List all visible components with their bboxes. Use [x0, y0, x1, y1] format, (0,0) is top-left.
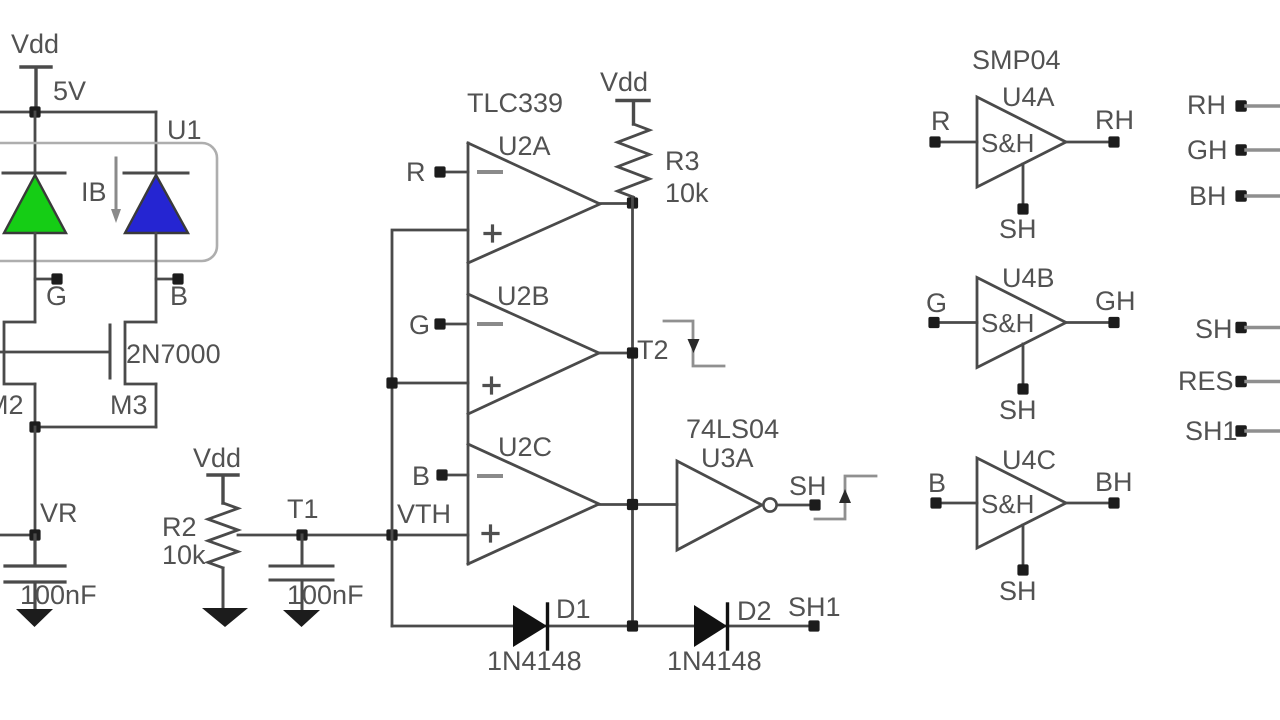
node B dot: [172, 273, 183, 284]
wire down to VR: [34, 427, 37, 535]
input R wire U4A: [940, 141, 977, 144]
wire blue LED to M3: [155, 233, 158, 322]
wire to blue LED: [155, 112, 158, 173]
node SH1 dot: [808, 620, 819, 631]
IC U1 outline: [0, 143, 217, 261]
svg-text:VR: VR: [40, 498, 78, 528]
bus wire left of comparators: [392, 230, 468, 626]
svg-text:G: G: [409, 310, 430, 340]
svg-text:S&H: S&H: [981, 308, 1034, 338]
svg-text:B: B: [928, 468, 946, 498]
node G tap wire: [35, 278, 52, 281]
svg-text:U3A: U3A: [701, 443, 754, 473]
svg-text:G: G: [46, 281, 67, 311]
wire R2 tap to VTH: [238, 534, 468, 537]
LED blue triangle: [125, 175, 188, 233]
svg-text:100nF: 100nF: [20, 580, 97, 610]
svg-text:S&H: S&H: [981, 128, 1034, 158]
wire green LED to M2: [34, 233, 37, 322]
svg-text:T2: T2: [637, 335, 669, 365]
wire top rail: [0, 111, 156, 114]
node B tap wire: [156, 278, 173, 281]
node U2C out junction: [627, 499, 638, 510]
svg-text:U1: U1: [167, 115, 202, 145]
wire sources join: [35, 426, 156, 429]
svg-text:R: R: [931, 106, 951, 136]
svg-text:B: B: [412, 461, 430, 491]
svg-text:74LS04: 74LS04: [686, 414, 779, 444]
comparators shared left edge: [467, 143, 470, 564]
node T1 dot: [296, 529, 307, 540]
resistor R2 bottom stub: [222, 568, 225, 608]
input G wire: [444, 323, 468, 326]
svg-text:SH: SH: [999, 214, 1037, 244]
capacitor C1 100nF plates: [5, 535, 65, 609]
transistor M2 body: [4, 322, 35, 384]
node junction sources: [29, 421, 40, 432]
svg-text:IB: IB: [81, 177, 107, 207]
svg-text:SH1: SH1: [788, 592, 841, 622]
ground under R2: [202, 608, 248, 627]
S&H amp U4A: [977, 97, 1066, 187]
comparator U2A: [468, 143, 600, 263]
svg-text:M3: M3: [110, 390, 148, 420]
power Vdd bar top-left: [21, 67, 51, 112]
svg-text:100nF: 100nF: [287, 580, 364, 610]
svg-text:U4C: U4C: [1002, 445, 1056, 475]
svg-text:G: G: [926, 288, 947, 318]
wire U2C output: [599, 503, 677, 506]
S&H amp U4C: [977, 458, 1066, 548]
ground under C1: [16, 609, 53, 627]
capacitor C2 100nF plates: [270, 535, 333, 610]
diode D1: [513, 605, 547, 647]
svg-text:SH: SH: [789, 471, 827, 501]
svg-text:SH: SH: [1195, 314, 1233, 344]
transistor M3 body: [125, 322, 156, 384]
svg-text:SH1: SH1: [1185, 416, 1238, 446]
svg-text:U2A: U2A: [498, 131, 551, 161]
svg-text:D2: D2: [737, 596, 772, 626]
svg-text:VTH: VTH: [397, 499, 451, 529]
svg-text:R3: R3: [665, 146, 700, 176]
diode D2: [694, 605, 727, 647]
node B dot comparator: [436, 469, 447, 480]
wire bottom rail: [392, 625, 814, 628]
current arrow IB: [115, 158, 118, 212]
svg-text:U2B: U2B: [497, 281, 550, 311]
input G wire U4B: [939, 321, 977, 324]
SH pin U4C: [1022, 525, 1025, 565]
svg-text:U4A: U4A: [1002, 82, 1055, 112]
node SH dot: [809, 499, 820, 510]
resistor R3 zigzag: [618, 124, 650, 197]
transistor M3 source wire: [155, 384, 158, 427]
svg-text:Vdd: Vdd: [11, 29, 59, 59]
falling edge symbol at T2: [664, 321, 724, 366]
LED blue cathode bar: [124, 172, 188, 175]
node bus U2B plus: [386, 377, 397, 388]
svg-text:R: R: [406, 157, 426, 187]
transistor M3 gate bar: [109, 325, 112, 378]
node junction Vdd rail: [29, 106, 40, 117]
resistor R2 zigzag: [208, 503, 238, 568]
node VTH dot: [386, 529, 397, 540]
LED green triangle: [4, 175, 66, 233]
svg-text:U2C: U2C: [498, 432, 552, 462]
node G dot comparator: [434, 318, 445, 329]
S&H amp U4B: [977, 278, 1066, 368]
svg-text:BH: BH: [1189, 181, 1227, 211]
svg-text:10k: 10k: [665, 178, 709, 208]
svg-text:Vdd: Vdd: [600, 67, 648, 97]
svg-text:B: B: [170, 281, 188, 311]
svg-text:SMP04: SMP04: [972, 45, 1061, 75]
input B wire U4C: [941, 502, 977, 505]
svg-text:GH: GH: [1095, 286, 1136, 316]
svg-text:RES: RES: [1178, 366, 1234, 396]
output GH wire U4B: [1066, 321, 1109, 324]
svg-text:Vdd: Vdd: [193, 443, 241, 473]
node G dot: [51, 273, 62, 284]
power Vdd bar R3: [617, 101, 649, 125]
node R dot: [434, 166, 445, 177]
wire U2B output: [599, 352, 632, 355]
svg-text:RH: RH: [1095, 105, 1134, 135]
output BH wire U4C: [1066, 502, 1109, 505]
svg-text:1N4148: 1N4148: [487, 646, 582, 676]
svg-text:TLC339: TLC339: [467, 88, 563, 118]
wire to green LED: [34, 112, 37, 173]
inverter U3A: [677, 461, 762, 550]
svg-text:BH: BH: [1095, 467, 1133, 497]
transistor M2 source wire: [34, 384, 37, 427]
svg-text:5V: 5V: [53, 76, 86, 106]
node R3 bottom junction: [627, 197, 638, 208]
svg-text:U4B: U4B: [1002, 263, 1055, 293]
svg-text:GH: GH: [1187, 135, 1228, 165]
input R wire: [444, 171, 468, 174]
node VR dot: [29, 529, 40, 540]
LED green cathode bar: [3, 172, 65, 175]
SH pin U4B: [1022, 344, 1025, 384]
svg-text:T1: T1: [287, 494, 319, 524]
comparator U2C: [468, 444, 599, 564]
output RH wire U4A: [1066, 141, 1109, 144]
svg-text:SH: SH: [999, 576, 1037, 606]
svg-text:M2: M2: [0, 390, 24, 420]
svg-text:2N7000: 2N7000: [126, 339, 221, 369]
SH pin U4A: [1022, 164, 1025, 204]
wire VR stub left: [0, 534, 35, 537]
rising edge symbol at SH: [815, 476, 876, 519]
svg-text:S&H: S&H: [981, 489, 1034, 519]
svg-text:SH: SH: [999, 395, 1037, 425]
comparator U2B: [468, 294, 599, 414]
wire U3A output: [777, 504, 815, 507]
node bottom rail junction: [627, 620, 638, 631]
wire U2A output: [600, 202, 633, 205]
svg-text:RH: RH: [1187, 90, 1226, 120]
input B wire: [446, 474, 468, 477]
gate wire M2-M3: [0, 351, 110, 354]
svg-text:R2: R2: [162, 512, 197, 542]
svg-text:1N4148: 1N4148: [667, 646, 762, 676]
node T2 dot: [627, 347, 638, 358]
ground under C2: [283, 610, 320, 627]
inverter bubble: [763, 498, 776, 511]
svg-text:10k: 10k: [162, 540, 206, 570]
svg-text:D1: D1: [556, 594, 591, 624]
power Vdd bar R2: [208, 475, 238, 503]
bus wire output column: [631, 197, 634, 626]
